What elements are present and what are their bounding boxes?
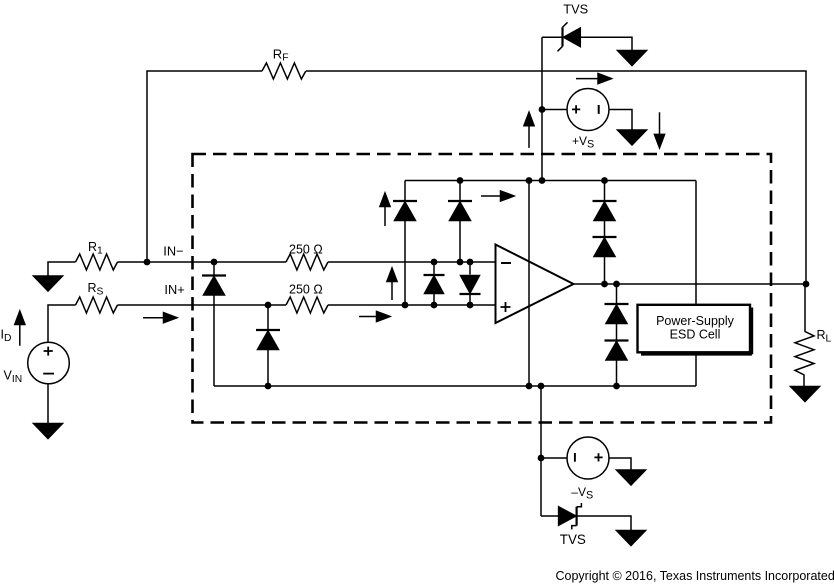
junction +VS node xyxy=(539,106,546,113)
arrow current right on IN+ line xyxy=(143,313,177,323)
ground symbol below VIN xyxy=(34,424,63,439)
diode D4 IN- to positive rail xyxy=(448,201,472,221)
wire D2 down to bottom rail xyxy=(267,350,269,387)
wire output from op-amp to RL xyxy=(574,283,807,285)
ground symbol +VS xyxy=(618,130,647,145)
junction IN+ at x=405 xyxy=(402,302,409,309)
svg-text:RF: RF xyxy=(273,46,289,63)
junction top rail at x=542 xyxy=(539,177,546,184)
wire D3 down to IN+ line xyxy=(404,221,406,306)
arrow right on top rail region xyxy=(481,191,514,201)
resistor RF xyxy=(262,63,306,79)
wire vertical at x=405 top rail to diode xyxy=(404,181,406,202)
junction output at x=616.5 xyxy=(613,281,620,288)
wire R1 left to ground xyxy=(48,262,76,276)
wire vertical anti-parallel diode leg x=434 xyxy=(433,262,435,275)
resistor RL vertical xyxy=(795,284,814,387)
wire vertical output clamp lower x=616.5 xyxy=(616,284,618,304)
wire D7b down to output xyxy=(604,257,606,285)
ground symbol TVS top xyxy=(618,51,647,66)
junction bottom rail at x=541 xyxy=(538,383,545,390)
wire TVS top right to ground xyxy=(580,37,632,50)
arrow up left of +VS node xyxy=(524,112,534,148)
wire +VS node to source xyxy=(542,109,567,111)
arrow right above +VS source xyxy=(576,74,612,84)
wire internal supply vertical x=529 xyxy=(528,181,530,387)
svg-text:ESD Cell: ESD Cell xyxy=(670,328,721,342)
wire feedback top-left: vertical from IN- node up and right to RF xyxy=(147,71,262,262)
svg-text:+VS: +VS xyxy=(572,134,594,150)
op-amp minus sign xyxy=(501,262,511,264)
TVS zener diode top xyxy=(558,22,581,51)
wire top rail down to ESD cell box xyxy=(695,181,697,305)
resistor RS xyxy=(76,297,118,313)
arrow up between input lines xyxy=(387,268,397,300)
wire D8b down to bottom rail xyxy=(616,360,618,386)
junction bottom rail at x=529 xyxy=(526,383,533,390)
wire -VS node to source xyxy=(541,457,567,459)
arrow down right of +VS ground xyxy=(654,112,664,148)
svg-text:250 Ω: 250 Ω xyxy=(289,243,323,257)
-VS source I label xyxy=(574,453,576,462)
wire IN+ line from 250ohm to op-amp xyxy=(328,304,496,306)
diode D1 IN- to negative rail xyxy=(202,276,226,296)
ground symbol RL xyxy=(791,387,820,402)
wire TVS top left stub xyxy=(542,36,562,38)
wire D4 down to IN- line xyxy=(459,221,461,263)
junction IN+ at x=268 xyxy=(265,302,272,309)
junction bottom rail at x=616.5 xyxy=(613,383,620,390)
svg-text:TVS: TVS xyxy=(563,2,588,17)
wire vertical IN- clamp leg at x=214 xyxy=(213,262,215,276)
wire +VS source right to ground xyxy=(609,110,632,131)
arrow ID current up xyxy=(15,311,25,346)
junction IN- at x=470 xyxy=(467,259,474,266)
wire D1 down to bottom rail xyxy=(213,295,215,386)
TVS zener diode bottom xyxy=(559,503,582,529)
wire VIN to ground xyxy=(47,384,49,424)
wire between D8a and D8b xyxy=(616,324,618,341)
arrow up beside D3 xyxy=(380,193,390,226)
wire ESD cell box down to bottom rail xyxy=(695,354,697,387)
svg-text:–VS: –VS xyxy=(571,485,593,501)
wire IN+ line from RS to 250ohm xyxy=(118,304,287,306)
ground symbol -VS xyxy=(617,470,646,485)
box shadow right-bottom xyxy=(641,308,752,355)
wire IN- line from 250ohm to op-amp xyxy=(328,261,496,263)
wire bottom internal rail xyxy=(214,385,696,387)
wire vertical output clamp upper x=604.5 xyxy=(604,181,606,202)
svg-text:250 Ω: 250 Ω xyxy=(289,283,323,297)
svg-text:VIN: VIN xyxy=(4,369,23,385)
diode D2 IN+ to negative rail xyxy=(256,330,280,350)
wire top internal rail xyxy=(405,180,696,182)
junction top rail at x=460 xyxy=(457,177,464,184)
wire RS left down to VIN source xyxy=(48,305,76,342)
ground symbol TVS bottom xyxy=(617,531,646,546)
wire between D7a and D7b xyxy=(604,221,606,238)
resistor 250ohm upper xyxy=(286,254,328,270)
svg-text:TVS: TVS xyxy=(560,532,586,547)
svg-text:IN−: IN− xyxy=(163,243,183,258)
wire feedback top horizontal to right edge and down to output xyxy=(306,71,806,284)
wire external supply vertical bottom x=541 xyxy=(540,386,542,516)
VIN plus sign xyxy=(44,347,53,356)
wire IN- line from R1 to 250ohm xyxy=(118,261,287,263)
-VS source plus sign xyxy=(594,453,602,461)
junction top rail at x=604.5 xyxy=(601,177,608,184)
op-amp plus sign xyxy=(501,302,511,312)
box Power-Supply ESD Cell xyxy=(638,305,751,353)
junction IN- feedback node xyxy=(144,259,151,266)
svg-text:RL: RL xyxy=(817,328,832,344)
diode D8a output to negative rail upper xyxy=(605,304,629,324)
diode D5 anti-parallel up xyxy=(424,275,445,294)
wire D5 to IN+ line xyxy=(433,294,435,306)
junction IN+ at x=470 xyxy=(467,302,474,309)
VIN minus sign xyxy=(43,373,54,375)
junction IN- at x=434 xyxy=(431,259,438,266)
source VIN circle xyxy=(28,342,70,384)
svg-text:ID: ID xyxy=(1,328,12,344)
svg-text:IN+: IN+ xyxy=(164,282,184,297)
svg-text:Power-Supply: Power-Supply xyxy=(656,314,735,328)
resistor R1 xyxy=(76,254,118,270)
wire TVS bottom right to ground xyxy=(578,516,632,531)
+VS source plus sign xyxy=(572,105,580,113)
diode D3 IN+ to positive rail xyxy=(393,201,417,221)
wire vertical IN+ clamp leg at x=268 xyxy=(267,305,269,330)
junction -VS node xyxy=(538,455,545,462)
junction top rail at x=529 xyxy=(526,177,533,184)
arrow current right after lower 250ohm xyxy=(359,311,390,321)
junction IN- at x=214 xyxy=(211,259,218,266)
wire -VS source right to ground xyxy=(609,458,631,470)
dashed boundary box of device xyxy=(193,154,772,423)
resistor 250ohm lower xyxy=(286,297,328,313)
junction IN- at x=460 xyxy=(457,259,464,266)
wire vertical at x=460 top rail to diode xyxy=(459,181,461,202)
diode D7a output to positive rail upper xyxy=(593,201,617,221)
diode D6 anti-parallel down xyxy=(460,276,481,295)
wire vertical anti-parallel diode leg x=470 xyxy=(469,262,471,275)
wire external supply vertical top x=542 xyxy=(541,37,543,180)
svg-text:Copyright © 2016, Texas Instru: Copyright © 2016, Texas Instruments Inco… xyxy=(556,569,834,583)
+VS source I label xyxy=(598,105,600,114)
wire TVS bottom left stub xyxy=(541,515,559,517)
wire D6 to IN+ line xyxy=(469,294,471,305)
svg-text:R1: R1 xyxy=(88,240,103,256)
current source -VS circle xyxy=(567,437,609,479)
diode D8b output to negative rail lower xyxy=(605,341,629,361)
diode D7b output to positive rail lower xyxy=(593,237,617,257)
junction output at x=604.5 xyxy=(601,281,608,288)
junction IN+ at x=434 xyxy=(431,302,438,309)
junction bottom rail at x=268 xyxy=(265,383,272,390)
current source +VS circle xyxy=(567,89,609,131)
junction output at RL xyxy=(803,281,810,288)
svg-text:RS: RS xyxy=(88,281,104,297)
op-amp U1 xyxy=(496,245,574,324)
ground symbol at R1 xyxy=(34,276,63,291)
